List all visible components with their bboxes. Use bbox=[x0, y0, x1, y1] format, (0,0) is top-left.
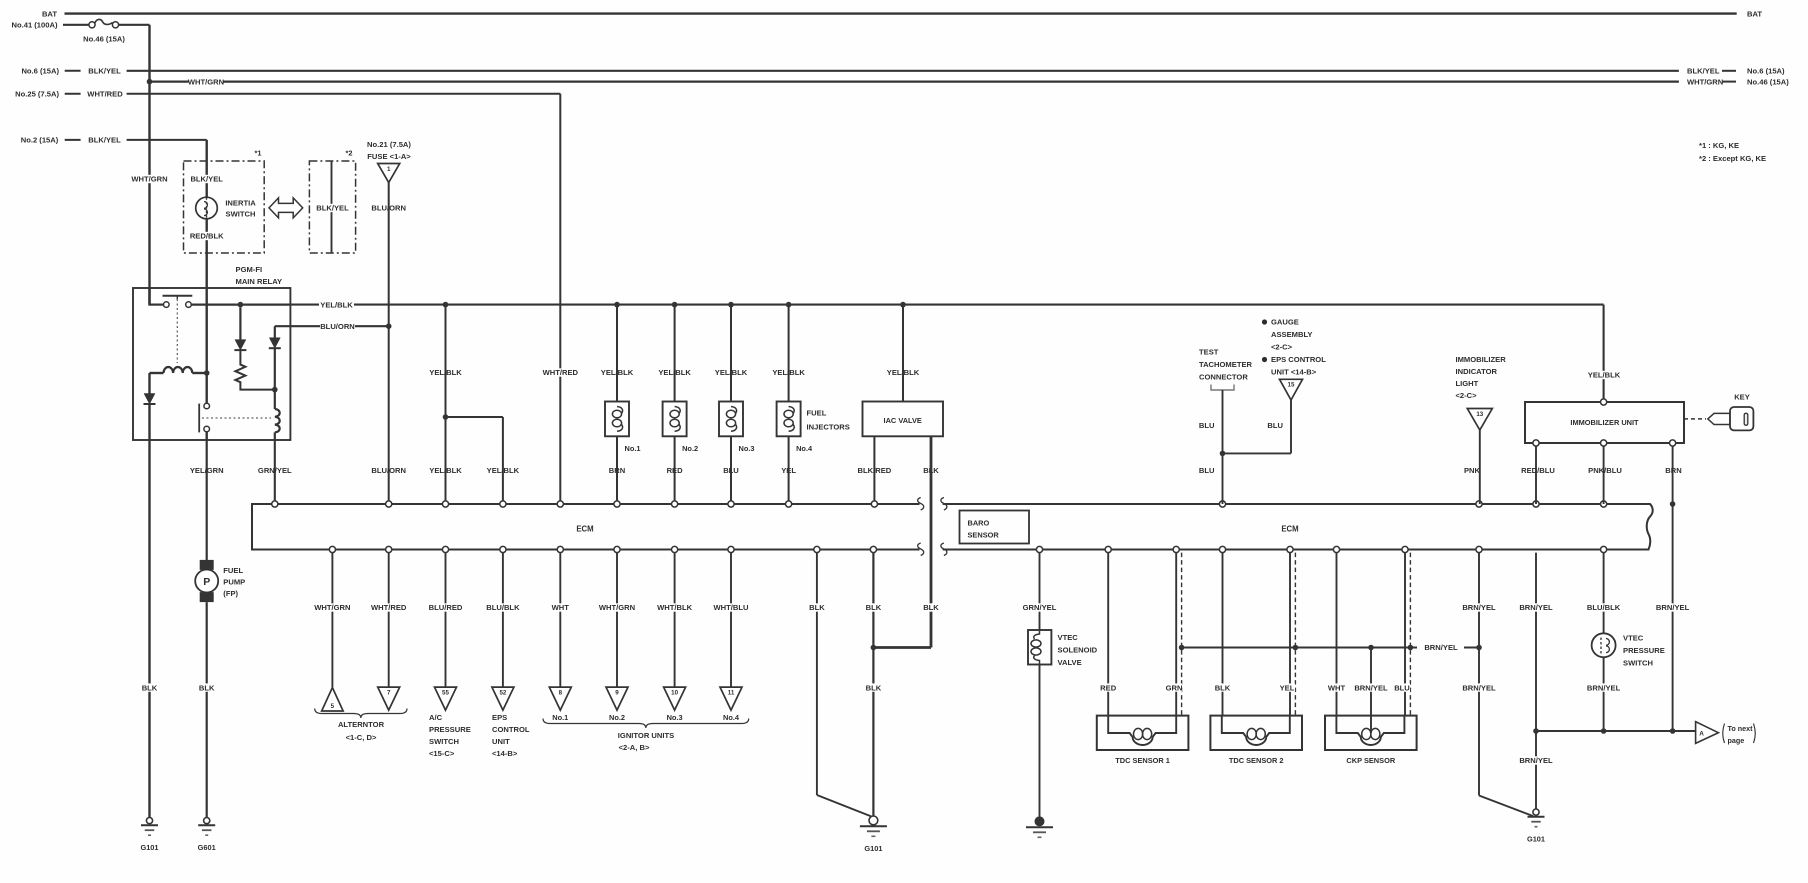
svg-text:(FP): (FP) bbox=[223, 589, 238, 598]
svg-text:A: A bbox=[1699, 730, 1704, 737]
svg-text:BRN: BRN bbox=[1665, 466, 1681, 475]
svg-text:13: 13 bbox=[1476, 411, 1483, 418]
svg-text:BLK/YEL: BLK/YEL bbox=[1687, 67, 1720, 76]
svg-text:5: 5 bbox=[331, 703, 335, 710]
svg-text:TDC SENSOR 2: TDC SENSOR 2 bbox=[1229, 756, 1284, 765]
svg-text:RED/BLU: RED/BLU bbox=[1521, 466, 1555, 475]
svg-text:LIGHT: LIGHT bbox=[1456, 379, 1479, 388]
svg-text:IMMOBILIZER: IMMOBILIZER bbox=[1456, 355, 1507, 364]
svg-text:WHT/GRN: WHT/GRN bbox=[131, 175, 167, 184]
svg-text:YEL/BLK: YEL/BLK bbox=[887, 368, 920, 377]
svg-text:EPS: EPS bbox=[492, 713, 507, 722]
svg-text:55: 55 bbox=[442, 690, 449, 697]
svg-text:RED/BLK: RED/BLK bbox=[190, 232, 224, 241]
svg-text:BLU: BLU bbox=[1267, 421, 1283, 430]
svg-text:BRN/YEL: BRN/YEL bbox=[1462, 683, 1496, 692]
svg-text:BLK: BLK bbox=[809, 603, 825, 612]
svg-text:No.4: No.4 bbox=[796, 444, 813, 453]
svg-text:No.2: No.2 bbox=[682, 444, 698, 453]
svg-text:TACHOMETER: TACHOMETER bbox=[1199, 360, 1253, 369]
svg-text:7: 7 bbox=[387, 690, 391, 697]
svg-text:BRN: BRN bbox=[609, 466, 625, 475]
svg-text:YEL/BLK: YEL/BLK bbox=[429, 466, 462, 475]
svg-text:ASSEMBLY: ASSEMBLY bbox=[1271, 330, 1313, 339]
svg-text:WHT/GRN: WHT/GRN bbox=[188, 77, 224, 86]
svg-text:RED: RED bbox=[1100, 683, 1117, 692]
svg-text:BLU/BLK: BLU/BLK bbox=[1587, 603, 1621, 612]
svg-text:G601: G601 bbox=[198, 843, 216, 852]
svg-text:IGNITOR UNITS: IGNITOR UNITS bbox=[618, 731, 674, 740]
svg-text:*1 : KG, KE: *1 : KG, KE bbox=[1699, 141, 1739, 150]
svg-text:VTEC: VTEC bbox=[1058, 633, 1079, 642]
svg-text:TDC SENSOR 1: TDC SENSOR 1 bbox=[1115, 756, 1170, 765]
svg-text:VALVE: VALVE bbox=[1058, 658, 1082, 667]
svg-text:YEL/BLK: YEL/BLK bbox=[320, 300, 353, 309]
svg-text:BRN/YEL: BRN/YEL bbox=[1519, 603, 1553, 612]
svg-text:INJECTORS: INJECTORS bbox=[807, 423, 850, 432]
svg-text:8: 8 bbox=[559, 690, 563, 697]
svg-text:11: 11 bbox=[728, 690, 735, 697]
svg-text:VTEC: VTEC bbox=[1623, 634, 1644, 643]
svg-text:<1-C, D>: <1-C, D> bbox=[346, 733, 377, 742]
svg-text:No.3: No.3 bbox=[739, 444, 755, 453]
svg-text:EPS CONTROL: EPS CONTROL bbox=[1271, 355, 1326, 364]
svg-text:SENSOR: SENSOR bbox=[968, 531, 1000, 540]
svg-text:BRN/YEL: BRN/YEL bbox=[1587, 683, 1621, 692]
svg-text:PNK: PNK bbox=[1464, 466, 1481, 475]
svg-text:BLU/BLK: BLU/BLK bbox=[486, 603, 520, 612]
svg-text:BLU/ORN: BLU/ORN bbox=[320, 322, 355, 331]
svg-text:MAIN RELAY: MAIN RELAY bbox=[236, 277, 283, 286]
svg-text:No.4: No.4 bbox=[723, 713, 740, 722]
svg-text:BLU: BLU bbox=[1199, 421, 1215, 430]
svg-text:YEL/GRN: YEL/GRN bbox=[190, 466, 224, 475]
svg-text:IAC VALVE: IAC VALVE bbox=[884, 416, 922, 425]
svg-text:UNIT <14-B>: UNIT <14-B> bbox=[1271, 368, 1317, 377]
svg-text:G101: G101 bbox=[140, 843, 158, 852]
svg-text:ECM: ECM bbox=[576, 524, 593, 533]
svg-text:YEL/BLK: YEL/BLK bbox=[715, 368, 748, 377]
svg-text:BLK: BLK bbox=[923, 603, 939, 612]
svg-text:YEL/BLK: YEL/BLK bbox=[658, 368, 691, 377]
svg-text:BLU: BLU bbox=[1394, 683, 1410, 692]
svg-text:BLK: BLK bbox=[866, 683, 882, 692]
svg-text:10: 10 bbox=[671, 690, 678, 697]
svg-text:FUEL: FUEL bbox=[807, 409, 827, 418]
svg-text:SOLENOID: SOLENOID bbox=[1058, 646, 1098, 655]
svg-text:BLU/ORN: BLU/ORN bbox=[371, 466, 406, 475]
svg-text:1: 1 bbox=[387, 166, 391, 173]
svg-text:BLK: BLK bbox=[142, 683, 158, 692]
svg-text:FUEL: FUEL bbox=[223, 566, 243, 575]
svg-text:15: 15 bbox=[1288, 382, 1295, 389]
svg-text:YEL: YEL bbox=[781, 466, 796, 475]
svg-text:52: 52 bbox=[499, 690, 506, 697]
svg-text:PNK/BLU: PNK/BLU bbox=[1588, 466, 1622, 475]
svg-text:page: page bbox=[1728, 736, 1745, 745]
svg-text:BLK/YEL: BLK/YEL bbox=[88, 136, 121, 145]
svg-text:WHT/RED: WHT/RED bbox=[371, 603, 407, 612]
svg-text:SWITCH: SWITCH bbox=[226, 210, 256, 219]
svg-text:P: P bbox=[203, 576, 210, 588]
svg-text:<2-C>: <2-C> bbox=[1271, 343, 1293, 352]
svg-text:YEL/BLK: YEL/BLK bbox=[429, 368, 462, 377]
svg-text:9: 9 bbox=[615, 690, 619, 697]
svg-text:YEL/BLK: YEL/BLK bbox=[1588, 371, 1621, 380]
svg-text:PUMP: PUMP bbox=[223, 578, 245, 587]
svg-text:BAT: BAT bbox=[42, 9, 57, 18]
svg-text:CONTROL: CONTROL bbox=[492, 725, 530, 734]
svg-text:No.46 (15A): No.46 (15A) bbox=[1747, 77, 1789, 86]
svg-text:IMMOBILIZER UNIT: IMMOBILIZER UNIT bbox=[1570, 418, 1639, 427]
svg-text:TEST: TEST bbox=[1199, 348, 1219, 357]
svg-text:BLK/YEL: BLK/YEL bbox=[316, 204, 349, 213]
svg-text:WHT/GRN: WHT/GRN bbox=[599, 603, 635, 612]
svg-text:BLK/RED: BLK/RED bbox=[858, 466, 892, 475]
svg-text:INDICATOR: INDICATOR bbox=[1456, 367, 1498, 376]
svg-text:GRN/YEL: GRN/YEL bbox=[258, 466, 292, 475]
svg-text:UNIT: UNIT bbox=[492, 737, 510, 746]
svg-text:<15-C>: <15-C> bbox=[429, 749, 455, 758]
svg-text:*2: *2 bbox=[346, 149, 353, 158]
svg-text:GRN: GRN bbox=[1166, 683, 1183, 692]
svg-text:SWITCH: SWITCH bbox=[1623, 659, 1653, 668]
svg-text:No.2: No.2 bbox=[609, 713, 625, 722]
svg-text:GAUGE: GAUGE bbox=[1271, 318, 1299, 327]
svg-text:PGM-FI: PGM-FI bbox=[236, 265, 263, 274]
svg-text:BLK/YEL: BLK/YEL bbox=[88, 67, 121, 76]
svg-text:No.46 (15A): No.46 (15A) bbox=[83, 34, 125, 43]
svg-text:No.41 (100A): No.41 (100A) bbox=[11, 21, 57, 30]
svg-text:BRN/YEL: BRN/YEL bbox=[1519, 756, 1553, 765]
svg-text:No.6 (15A): No.6 (15A) bbox=[1747, 67, 1785, 76]
svg-text:ALTERNTOR: ALTERNTOR bbox=[338, 720, 385, 729]
svg-text:<2-C>: <2-C> bbox=[1456, 391, 1478, 400]
svg-text:BLK: BLK bbox=[866, 603, 882, 612]
svg-text:<2-A, B>: <2-A, B> bbox=[619, 743, 650, 752]
svg-text:WHT/BLK: WHT/BLK bbox=[657, 603, 693, 612]
svg-text:BLU: BLU bbox=[723, 466, 739, 475]
svg-text:YEL: YEL bbox=[1280, 683, 1295, 692]
svg-text:INERTIA: INERTIA bbox=[225, 199, 256, 208]
svg-text:WHT/BLU: WHT/BLU bbox=[713, 603, 749, 612]
svg-text:WHT: WHT bbox=[552, 603, 570, 612]
svg-text:BLK: BLK bbox=[199, 683, 215, 692]
svg-text:*1: *1 bbox=[255, 149, 262, 158]
svg-text:No.6 (15A): No.6 (15A) bbox=[21, 67, 59, 76]
svg-text:*2 : Except KG, KE: *2 : Except KG, KE bbox=[1699, 154, 1766, 163]
svg-text:G101: G101 bbox=[864, 844, 882, 853]
svg-text:YEL/BLK: YEL/BLK bbox=[601, 368, 634, 377]
svg-text:GRN/YEL: GRN/YEL bbox=[1023, 603, 1057, 612]
svg-text:No.1: No.1 bbox=[625, 444, 641, 453]
svg-text:BRN/YEL: BRN/YEL bbox=[1424, 643, 1458, 652]
svg-text:WHT/RED: WHT/RED bbox=[87, 90, 123, 99]
svg-text:G101: G101 bbox=[1527, 834, 1545, 843]
svg-text:A/C: A/C bbox=[429, 713, 443, 722]
svg-text:RED: RED bbox=[667, 466, 684, 475]
svg-text:No.2 (15A): No.2 (15A) bbox=[21, 136, 59, 145]
svg-text:WHT/GRN: WHT/GRN bbox=[1687, 77, 1723, 86]
svg-text:No.3: No.3 bbox=[667, 713, 683, 722]
svg-text:CKP SENSOR: CKP SENSOR bbox=[1346, 756, 1395, 765]
svg-text:BARO: BARO bbox=[968, 519, 990, 528]
svg-text:CONNECTOR: CONNECTOR bbox=[1199, 373, 1248, 382]
svg-text:BRN/YEL: BRN/YEL bbox=[1354, 683, 1388, 692]
svg-text:ECM: ECM bbox=[1281, 524, 1298, 533]
svg-text:BLU: BLU bbox=[1199, 466, 1215, 475]
svg-text:BLU/RED: BLU/RED bbox=[429, 603, 463, 612]
svg-text:BAT: BAT bbox=[1747, 9, 1762, 18]
svg-text:PRESSURE: PRESSURE bbox=[429, 725, 471, 734]
svg-text:<14-B>: <14-B> bbox=[492, 749, 518, 758]
svg-text:No.21 (7.5A): No.21 (7.5A) bbox=[367, 140, 411, 149]
svg-text:BLK/YEL: BLK/YEL bbox=[190, 175, 223, 184]
svg-text:BRN/YEL: BRN/YEL bbox=[1462, 603, 1496, 612]
svg-text:BRN/YEL: BRN/YEL bbox=[1656, 603, 1690, 612]
svg-text:To next: To next bbox=[1728, 724, 1754, 733]
svg-text:SWITCH: SWITCH bbox=[429, 737, 459, 746]
svg-text:BLK: BLK bbox=[1215, 683, 1231, 692]
svg-text:No.25 (7.5A): No.25 (7.5A) bbox=[15, 90, 59, 99]
svg-text:WHT/GRN: WHT/GRN bbox=[314, 603, 350, 612]
svg-text:WHT: WHT bbox=[1328, 683, 1346, 692]
svg-text:WHT/RED: WHT/RED bbox=[543, 368, 579, 377]
svg-text:No.1: No.1 bbox=[552, 713, 568, 722]
svg-text:YEL/BLK: YEL/BLK bbox=[487, 466, 520, 475]
svg-text:PRESSURE: PRESSURE bbox=[1623, 646, 1665, 655]
svg-text:KEY: KEY bbox=[1734, 393, 1750, 402]
svg-text:FUSE <1-A>: FUSE <1-A> bbox=[367, 152, 411, 161]
svg-text:YEL/BLK: YEL/BLK bbox=[772, 368, 805, 377]
